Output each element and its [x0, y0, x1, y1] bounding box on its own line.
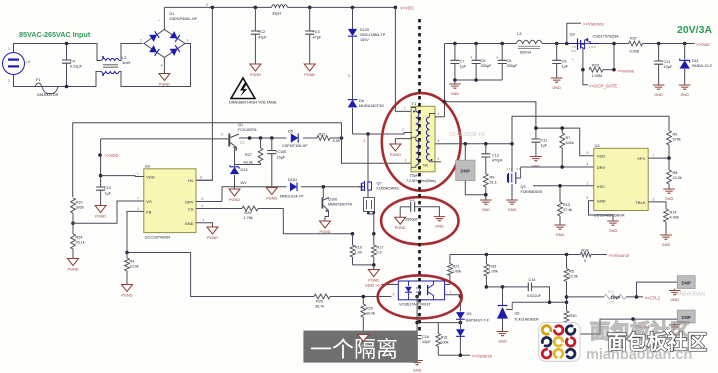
junction sense bottom	[372, 263, 376, 267]
bridge rectifier D1	[140, 18, 189, 68]
ground PGND Q100	[320, 221, 331, 234]
svg-text:R24: R24	[76, 236, 83, 240]
node 9 label	[206, 3, 208, 7]
svg-text:DRV: DRV	[597, 165, 606, 170]
resistor R23	[589, 64, 603, 79]
ground PGND R20	[358, 335, 369, 348]
wire C16 drop	[416, 297, 418, 336]
svg-text:PGND: PGND	[159, 83, 170, 87]
ghost watermark 2	[676, 292, 705, 298]
junction C5	[474, 42, 478, 46]
svg-text:R15: R15	[608, 290, 614, 294]
svg-text:R4: R4	[130, 260, 135, 264]
ground GND C9	[551, 78, 563, 90]
svg-text:PGND: PGND	[250, 73, 261, 77]
svg-text:R22: R22	[319, 133, 326, 137]
label T1 value	[406, 174, 436, 184]
net VDD opto	[365, 283, 381, 288]
svg-text:4.99: 4.99	[333, 139, 340, 143]
junction CTL2	[565, 295, 569, 299]
wire sense link	[603, 69, 614, 71]
svg-text:1,2,3: 1,2,3	[589, 45, 596, 49]
ground PGND bridge	[159, 74, 170, 87]
wire VDD branch	[100, 139, 102, 176]
svg-text:CS: CS	[188, 207, 194, 212]
svg-text:R20: R20	[366, 307, 373, 311]
svg-text:GND: GND	[185, 221, 194, 226]
inductor L3	[516, 31, 542, 55]
junction C16	[415, 295, 419, 299]
wire VS tap	[73, 201, 135, 223]
wire sense join	[353, 264, 374, 266]
svg-text:>>: >>	[376, 283, 382, 288]
svg-text:Q3: Q3	[521, 185, 526, 189]
svg-text:3: 3	[221, 133, 223, 137]
svg-text:GND: GND	[662, 243, 671, 247]
svg-text:5: 5	[202, 204, 204, 208]
resistor DNP R15	[604, 290, 626, 305]
svg-text:>>Vout: >>Vout	[696, 42, 710, 47]
ground GND C1	[434, 217, 446, 229]
wire VDC to T1	[395, 7, 412, 111]
svg-text:8: 8	[587, 196, 589, 200]
resistor R37	[629, 37, 643, 54]
pin U2 GND	[587, 196, 614, 221]
svg-text:C11: C11	[541, 139, 548, 143]
wire VDC bus	[164, 6, 395, 8]
junction c3	[270, 136, 274, 140]
ground PGND C1	[395, 217, 406, 230]
svg-text:VSC: VSC	[597, 184, 605, 189]
svg-text:R17: R17	[377, 246, 384, 250]
svg-text:D3: D3	[467, 312, 472, 316]
junction CTL1	[631, 317, 635, 321]
svg-text:9: 9	[206, 3, 208, 7]
pin T1 shield	[395, 139, 412, 144]
svg-text:R5: R5	[569, 270, 574, 274]
svg-text:17,8: 17,8	[507, 167, 513, 171]
svg-text:R21: R21	[453, 265, 460, 269]
svg-text:R23: R23	[592, 64, 599, 68]
junction Q9 gate	[581, 68, 585, 72]
junction C21	[657, 42, 661, 46]
svg-text:2.00k: 2.00k	[607, 301, 615, 305]
label D1	[170, 12, 198, 21]
junction bus end	[394, 6, 398, 10]
fuse F1	[35, 78, 59, 97]
wire cap commons	[455, 79, 502, 81]
junction R20	[362, 295, 366, 299]
svg-text:470pF: 470pF	[492, 159, 503, 163]
svg-text:1.78k: 1.78k	[244, 216, 253, 220]
wire input top	[14, 44, 102, 61]
wire aux to T1 pin3	[342, 123, 413, 164]
svg-text:<<Vsource: <<Vsource	[609, 253, 630, 258]
wire opto c	[445, 274, 450, 284]
svg-text:5,6: 5,6	[572, 49, 577, 53]
junction R7 drv	[560, 165, 564, 169]
ground GND DNP1	[669, 291, 681, 303]
resistor R21	[448, 255, 462, 276]
resistor R17	[371, 234, 383, 265]
svg-text:6: 6	[202, 197, 204, 201]
svg-text:VO3617A-TX001T: VO3617A-TX001T	[399, 302, 432, 307]
capacitor C7	[450, 44, 466, 81]
wire Q1 base	[101, 138, 229, 140]
svg-text:+C3: +C3	[313, 30, 320, 34]
wire sec rail	[444, 143, 512, 145]
wire FB to opto	[127, 253, 391, 297]
junction VSC R13	[558, 184, 562, 188]
junction sense rail	[612, 42, 616, 72]
svg-text:FB: FB	[146, 209, 151, 214]
svg-text:R7: R7	[566, 136, 571, 140]
svg-text:3: 3	[405, 159, 407, 163]
svg-text:+C100: +C100	[275, 150, 286, 154]
svg-text:R25: R25	[316, 300, 323, 304]
svg-text:0.22µF: 0.22µF	[70, 65, 83, 69]
svg-text:PGND: PGND	[229, 198, 240, 202]
resistor R20	[361, 297, 375, 335]
ground GND R13	[554, 225, 566, 237]
pin T1 5	[435, 157, 441, 162]
svg-text:VDD: VDD	[365, 283, 374, 288]
svg-text:VDD: VDD	[597, 154, 606, 159]
svg-text:DNP: DNP	[460, 169, 470, 174]
svg-text:10.0k: 10.0k	[130, 265, 139, 269]
junction Vsource	[565, 42, 569, 46]
wire choke to bridge bottom	[119, 44, 191, 87]
svg-text:D11: D11	[692, 59, 699, 63]
svg-text:UCC28740DR: UCC28740DR	[145, 235, 171, 240]
svg-text:3: 3	[393, 293, 395, 297]
svg-text:C21: C21	[664, 60, 671, 64]
pin T1 3	[405, 159, 407, 163]
junction R7 top	[560, 126, 564, 130]
resistor R4	[125, 253, 139, 285]
svg-text:SMCJ188A-TP: SMCJ188A-TP	[360, 33, 386, 37]
svg-text:TL431AIDBZR: TL431AIDBZR	[514, 318, 539, 322]
resistor R31	[436, 323, 449, 356]
svg-text:R6: R6	[673, 133, 678, 137]
svg-text:F1: F1	[36, 78, 40, 82]
svg-text:R28: R28	[245, 211, 252, 215]
ground GND Q3	[506, 192, 518, 212]
junction gate	[322, 185, 326, 189]
junction VPC	[667, 156, 671, 160]
capacitor C1	[400, 198, 439, 222]
wire DRV U2	[521, 166, 594, 168]
op-amp U2 box	[594, 143, 648, 218]
svg-text:26.1k: 26.1k	[76, 241, 85, 245]
svg-text:GND: GND	[508, 208, 517, 212]
svg-text:10.0k: 10.0k	[366, 312, 375, 316]
wire bridge to pgnd	[163, 58, 165, 74]
op-amp U3 box	[144, 164, 196, 240]
watermark main text	[607, 330, 707, 354]
wire C1 pgnd	[399, 207, 401, 217]
ground GND DNP2	[669, 325, 681, 337]
wire FB route	[127, 211, 135, 252]
junction c1	[248, 136, 252, 140]
watermark url	[586, 347, 692, 363]
svg-text:2,1: 2,1	[240, 141, 245, 145]
svg-text:4.99k: 4.99k	[670, 216, 679, 220]
pin U3 HV	[188, 176, 212, 184]
svg-text:mianbaoban.cn: mianbaoban.cn	[586, 347, 692, 363]
component DNP1	[675, 276, 695, 291]
svg-text:10µF: 10µF	[664, 65, 673, 69]
svg-text:FDMS8050S: FDMS8050S	[521, 190, 543, 194]
ground PGND C100	[266, 188, 277, 201]
ground PGND C3	[304, 64, 315, 77]
pin U2 VSC	[533, 181, 605, 189]
svg-text:C16: C16	[422, 335, 429, 339]
svg-text:576k: 576k	[673, 138, 681, 142]
ground PGND C2	[250, 64, 261, 77]
resistor R8	[667, 158, 682, 189]
svg-text:0: 0	[584, 259, 586, 263]
svg-text:VS: VS	[146, 199, 152, 204]
svg-text:3: 3	[187, 39, 189, 43]
pin opto 3	[393, 293, 395, 297]
svg-text:U1: U1	[26, 60, 31, 64]
wire CS route	[258, 209, 353, 234]
svg-text:GND: GND	[680, 93, 689, 97]
svg-text:PGND: PGND	[207, 236, 218, 240]
resistor R18	[581, 249, 592, 264]
ground GND C7	[449, 80, 461, 96]
wire Q3 drain	[511, 144, 513, 172]
svg-text:15µH: 15µH	[410, 174, 419, 178]
svg-text:>>sense: >>sense	[618, 69, 635, 74]
svg-text:7:2.5Pri:Sec(Bias): 7:2.5Pri:Sec(Bias)	[406, 179, 436, 183]
capacitor C100	[267, 138, 286, 188]
ground PGND U3	[207, 227, 218, 240]
resistor R28	[242, 206, 258, 220]
junction gnd join	[453, 78, 478, 82]
net OCP_GATE	[589, 84, 617, 89]
svg-text:GND: GND	[654, 93, 663, 97]
svg-text:C7: C7	[460, 60, 465, 64]
svg-text:150V: 150V	[360, 38, 369, 42]
svg-text:3: 3	[653, 197, 655, 201]
svg-text:51.1: 51.1	[490, 181, 497, 185]
svg-text:>>VDD: >>VDD	[105, 153, 119, 158]
net Vsource top	[583, 22, 604, 27]
wire Q7 gate stub	[358, 186, 362, 188]
ground GND C16	[411, 361, 423, 373]
watermark logo	[539, 323, 580, 362]
wire VS top line	[73, 122, 342, 124]
junction R5 top	[565, 253, 569, 257]
junction C6	[500, 42, 504, 46]
pin T1 2	[402, 128, 412, 133]
ground GND U2	[607, 221, 619, 233]
watermark ghost text	[590, 319, 690, 343]
svg-text:10.0k: 10.0k	[673, 176, 682, 180]
svg-text:R10: R10	[76, 201, 83, 205]
junction C4 top	[65, 42, 69, 46]
junction bus HV	[211, 6, 215, 10]
svg-text:DNP: DNP	[682, 281, 691, 286]
svg-text:PGND: PGND	[266, 197, 277, 201]
wire ref line	[512, 301, 566, 303]
capacitor C12	[481, 144, 503, 174]
transistor Q1	[221, 133, 245, 150]
pin T1 4	[435, 112, 445, 117]
svg-text:MMDL914-TP: MMDL914-TP	[280, 195, 304, 199]
wire Q3 gate	[520, 166, 522, 168]
svg-text:R8: R8	[673, 171, 678, 175]
svg-text:R19: R19	[355, 246, 362, 250]
junction sense L	[351, 232, 355, 236]
capacitor C3	[305, 7, 322, 64]
svg-text:4: 4	[203, 218, 205, 222]
svg-text:600nH: 600nH	[520, 51, 531, 55]
pin U2 VPC	[637, 154, 669, 162]
svg-text:GND: GND	[552, 86, 561, 90]
diode D3b	[456, 320, 465, 356]
resistor R14	[664, 206, 679, 235]
svg-text:GND: GND	[413, 369, 422, 373]
svg-text:U3: U3	[145, 164, 151, 169]
svg-text:100k: 100k	[440, 341, 448, 345]
junction R33 top	[485, 253, 489, 257]
svg-text:10µF: 10µF	[422, 340, 431, 344]
junction sec tap	[443, 100, 447, 104]
svg-text:330µF: 330µF	[481, 64, 493, 68]
svg-text:R37: R37	[630, 37, 637, 41]
circle Y-cap	[381, 197, 458, 244]
resistor R7	[560, 128, 574, 167]
svg-text:2: 2	[140, 39, 142, 43]
svg-text:PGND: PGND	[68, 268, 79, 272]
svg-text:R27: R27	[245, 153, 252, 157]
wire DNP1 link	[637, 282, 678, 297]
wire Vsource rail	[450, 254, 607, 256]
net sense	[618, 69, 635, 74]
ghost watermark 1	[449, 132, 485, 138]
transistor Q7	[361, 180, 400, 192]
overlay text	[310, 337, 398, 362]
svg-text:C12: C12	[492, 154, 499, 158]
diode D6	[348, 99, 384, 134]
junction R33 bot	[485, 285, 489, 289]
junction FB	[125, 251, 129, 255]
ground GND R14	[660, 235, 672, 247]
svg-text:VPC: VPC	[637, 156, 645, 161]
svg-text:Q100: Q100	[328, 198, 337, 202]
pin U2 VDD	[587, 151, 606, 159]
svg-text:3: 3	[137, 207, 139, 211]
svg-text:1.00k: 1.00k	[489, 270, 498, 274]
pin U3 VS	[135, 197, 152, 205]
svg-text:8: 8	[200, 176, 202, 180]
svg-text:Z4DGP406L-HF: Z4DGP406L-HF	[170, 17, 198, 21]
junction vsrc	[459, 353, 463, 357]
svg-text:L3: L3	[517, 31, 522, 36]
svg-text:C5: C5	[481, 59, 486, 63]
capacitor C5	[470, 44, 492, 81]
wire sense drop	[613, 44, 615, 70]
pin T1 8	[435, 139, 444, 144]
resistor R13	[558, 186, 573, 225]
capacitor C4	[62, 44, 83, 87]
junction opto out	[459, 295, 463, 299]
junction C11 top	[534, 126, 538, 130]
wire CTL2 line	[567, 296, 644, 298]
junction bus C2	[254, 6, 258, 10]
svg-text:SMDA-13-F: SMDA-13-F	[692, 64, 713, 68]
transistor Q100	[322, 187, 353, 221]
junction CTL2 up	[635, 295, 639, 299]
zener D11	[680, 44, 713, 86]
junction C7	[453, 42, 457, 46]
wire R6 feed	[512, 116, 669, 144]
svg-text:<<CTL2: <<CTL2	[645, 296, 661, 301]
capacitor C21	[654, 44, 673, 86]
wire sec to U2 rail	[445, 102, 594, 156]
junction Q7 drain	[366, 132, 370, 136]
junction sense R	[372, 232, 376, 236]
svg-text:PGND: PGND	[304, 73, 315, 77]
junction VDD	[98, 153, 102, 157]
junction DNP drop	[464, 142, 468, 146]
wire out rail	[445, 43, 695, 45]
svg-text:GND: GND	[597, 199, 606, 204]
optocoupler U4	[398, 281, 444, 307]
node 9 label2	[348, 74, 350, 78]
svg-text:C4: C4	[70, 60, 75, 64]
svg-text:2: 2	[8, 79, 10, 83]
resistor R9	[483, 174, 496, 200]
wire opto vdd	[382, 281, 399, 285]
capacitor C10	[96, 176, 112, 206]
wire HV drop	[196, 7, 212, 180]
svg-text:PGND: PGND	[390, 153, 401, 157]
svg-text:CSFMT106-HF: CSFMT106-HF	[282, 144, 308, 148]
junction R9 bot	[484, 193, 488, 197]
junction TL431 k	[501, 285, 505, 289]
svg-text:1.00M: 1.00M	[592, 74, 603, 78]
svg-text:R13: R13	[563, 203, 570, 207]
wire Q7 drain	[367, 134, 369, 180]
label Q1	[238, 123, 257, 132]
svg-text:1: 1	[653, 154, 655, 158]
svg-text:Q9: Q9	[570, 33, 575, 37]
shunt TL431 U5	[497, 287, 539, 332]
label output	[677, 24, 712, 36]
capacitor C9	[552, 44, 569, 79]
svg-text:0.022uF: 0.022uF	[527, 294, 542, 298]
net Vsource bottom	[472, 354, 493, 359]
wire OCP	[583, 70, 588, 85]
junction c2	[259, 136, 263, 140]
ground GND R9	[480, 200, 492, 212]
ground GND TL431	[497, 332, 509, 344]
capacitor C2	[251, 7, 268, 64]
capacitor C11	[531, 128, 547, 156]
pin U3 FB	[135, 207, 152, 214]
svg-text:1.00k: 1.00k	[452, 270, 461, 274]
ground GND R8	[663, 189, 675, 201]
pin U2 DRV	[587, 163, 606, 171]
svg-text:8: 8	[438, 139, 440, 143]
svg-text:BAT54ST-7-F: BAT54ST-7-F	[466, 319, 490, 323]
svg-text:MURA160T3G: MURA160T3G	[359, 104, 384, 108]
resistor R5	[564, 255, 578, 303]
